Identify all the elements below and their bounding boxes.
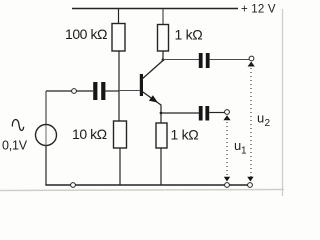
svg-text:+ 12 V: + 12 V [241,3,276,15]
wire R2 bottom to collector node [162,51,164,60]
capacitor C1 input [93,82,105,100]
resistor R2 1k collector box [158,25,169,52]
svg-text:100 kΩ: 100 kΩ [65,26,107,42]
node emitter junction dot [160,112,163,115]
label 1 kOhm emitter [171,127,199,143]
wire stub rail to R1 [118,9,120,24]
wire bias chain vertical R1 to R3 [118,51,120,121]
node u1 terminal bottom [225,183,230,188]
wire top supply rail [72,8,238,10]
wire emitter node to C3 [161,112,199,114]
transistor Q1 emitter lead with arrow [142,91,162,105]
wire input line source to base [46,90,140,93]
node u2 terminal bottom [248,183,253,188]
source V1 internal wire [45,125,47,146]
u2 dotted measurement line [250,64,252,180]
wire bottom ground rail [45,184,248,186]
u1 arrowhead down [224,177,230,182]
source V1 wire bottom [45,146,47,186]
node ground terminal left [71,183,76,188]
svg-text:0,1V: 0,1V [2,139,28,153]
resistor R1 100k box [112,24,125,52]
transistor Q1 base bar [140,74,143,96]
source V1 sine symbol [12,120,23,131]
wire collector node to C2 [163,59,199,61]
node input terminal [72,89,77,94]
wire emitter corner down to node [160,105,162,114]
scan artifact bottom edge line [0,190,284,191]
label u1 [234,138,247,157]
label 100 kOhm [65,26,107,42]
svg-text:2: 2 [265,118,271,129]
node u1 terminal top [225,110,230,115]
svg-text:10 kΩ: 10 kΩ [72,126,107,142]
wire R3 bottom to ground rail [119,148,121,185]
scan artifact right edge line [282,9,284,196]
u2 arrowhead up [248,62,255,67]
source V1 circle [36,125,57,146]
label 10 kOhm [72,126,107,142]
wire C3 to u1 node [209,112,225,114]
wire C2 to u2 node [210,59,250,61]
capacitor C3 output bottom [199,106,209,121]
u1 dotted measurement line [226,118,228,180]
wire stub rail to R2 collector resistor [162,9,164,25]
wire R4 bottom to ground rail [160,148,162,185]
wire emitter node down to R4 [160,113,162,123]
capacitor C2 output top [199,53,210,68]
u1 arrowhead up [223,115,230,120]
resistor R4 1k emitter box [156,123,167,148]
node u2 terminal top [249,56,254,61]
node collector junction dot [162,58,165,61]
label +12V [241,3,276,15]
label u2 [257,111,271,130]
u2 arrowhead down [247,177,253,182]
svg-text:1 kΩ: 1 kΩ [175,27,203,43]
svg-text:1 kΩ: 1 kΩ [171,127,199,143]
transistor Q1 collector lead [142,60,164,80]
label 1 kOhm collector [175,27,203,43]
resistor R3 10k box [114,121,127,148]
svg-text:u: u [257,111,264,126]
label 0,1V [2,139,28,153]
svg-text:1: 1 [241,146,247,157]
source V1 wire top [45,91,47,125]
